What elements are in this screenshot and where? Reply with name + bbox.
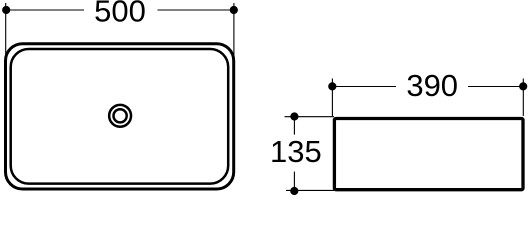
dimension line 390 right segment bbox=[468, 86, 523, 88]
dot right end of 500 dim bbox=[230, 6, 238, 14]
extension line right (390 dim) bbox=[522, 79, 524, 117]
dimension line 135 top segment bbox=[293, 117, 295, 135]
drain inner circle bbox=[114, 109, 127, 122]
dot right end of 390 dim bbox=[519, 82, 527, 90]
dot bottom end of 135 dim bbox=[290, 187, 298, 195]
extension line left (500 dim) bbox=[5, 3, 7, 58]
dimension line 500 right segment bbox=[158, 9, 234, 11]
extension line top (135 dim) bbox=[285, 116, 335, 118]
svg-text:500: 500 bbox=[94, 0, 146, 28]
dimension line 135 bottom segment bbox=[293, 172, 295, 191]
extension line bottom (135 dim) bbox=[286, 189, 334, 191]
dot top end of 135 dim bbox=[290, 112, 298, 120]
basin outer rim (top view) bbox=[6, 44, 234, 189]
dimension line 500 left segment bbox=[6, 9, 84, 11]
basin inner bowl edge (top view) bbox=[11, 49, 229, 184]
extension line left (390 dim) bbox=[331, 79, 333, 117]
svg-text:390: 390 bbox=[406, 68, 458, 103]
dot left end of 390 dim bbox=[328, 82, 336, 90]
side view body rectangle bbox=[334, 119, 523, 190]
drain outer circle bbox=[109, 105, 131, 127]
dot left end of 500 dim bbox=[2, 6, 10, 14]
svg-text:135: 135 bbox=[270, 134, 322, 169]
dimension line 390 left segment bbox=[332, 86, 396, 88]
extension line right (500 dim) bbox=[233, 3, 235, 58]
